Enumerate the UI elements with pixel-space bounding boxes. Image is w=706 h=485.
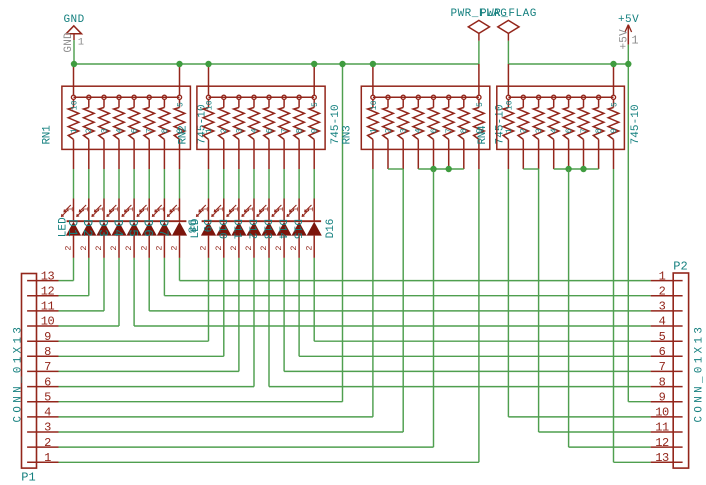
wires RN2 pins to LED cathode pins [208, 199, 210, 222]
wire GND drop to P1 pin 5 row [342, 64, 344, 402]
svg-text:P2: P2 [673, 259, 687, 273]
svg-text:2: 2 [170, 245, 180, 250]
svg-text:RN2: RN2 [178, 126, 190, 145]
power symbol +5V #PWR04 [618, 14, 639, 50]
resistor network RN2 745-10 [197, 64, 325, 169]
svg-text:5: 5 [611, 102, 620, 107]
svg-text:2: 2 [44, 436, 51, 450]
LED D3 [92, 205, 112, 258]
wire P1 pin 5 row [59, 401, 343, 403]
wire to P2 pin 12 row [569, 446, 651, 448]
wire P1 pin 12 row [59, 295, 89, 297]
wire to P2 pin 6 row [299, 355, 651, 357]
svg-text:2: 2 [124, 245, 134, 250]
svg-text:7: 7 [579, 128, 589, 133]
svg-text:2: 2 [64, 245, 74, 250]
svg-text:2: 2 [383, 128, 393, 133]
svg-text:7: 7 [44, 360, 51, 374]
wire P1 pin 1 row [59, 461, 479, 463]
wire to P2 pin 3 row [149, 310, 651, 312]
svg-text:6: 6 [429, 128, 439, 133]
LED D13 [257, 205, 277, 258]
svg-text:D7: D7 [156, 219, 170, 239]
svg-text:1: 1 [631, 33, 638, 47]
LED D6 [137, 205, 157, 258]
svg-text:2: 2 [214, 245, 224, 250]
svg-text:9: 9 [44, 330, 51, 344]
svg-text:4: 4 [549, 128, 559, 133]
wire tie RN4 pins 2-3 [523, 168, 538, 170]
svg-text:+5V: +5V [618, 14, 639, 26]
svg-text:1: 1 [276, 207, 286, 212]
wire P1 pin 10 row [59, 325, 120, 327]
svg-text:1: 1 [204, 128, 214, 133]
svg-text:4: 4 [414, 128, 424, 133]
junction RN2 pin5 [311, 61, 317, 67]
svg-text:8: 8 [594, 128, 604, 133]
svg-text:D4: D4 [110, 219, 124, 239]
svg-text:3: 3 [44, 421, 51, 435]
svg-text:10: 10 [655, 406, 669, 420]
wire P1 pin 4 row [59, 416, 373, 418]
junction RN2 pin10 [205, 61, 211, 67]
connector P1 CONN_01X13 [22, 269, 59, 468]
svg-text:745-10: 745-10 [330, 104, 342, 144]
svg-text:2: 2 [259, 245, 269, 250]
wire GND bus [74, 63, 479, 65]
resistor network RN4 745-10 [497, 64, 625, 169]
wire RN4 pin6 drop to P2 pin12 row [568, 169, 570, 447]
wire PWR_FLAG to GND bus [478, 41, 480, 64]
svg-text:1: 1 [306, 207, 316, 212]
svg-text:10: 10 [206, 100, 215, 110]
svg-text:D16: D16 [325, 219, 337, 239]
svg-text:2: 2 [219, 128, 229, 133]
wire P1 pin 8 row [59, 355, 224, 357]
junction RN3 pin 7 [446, 166, 452, 172]
svg-text:1: 1 [659, 269, 666, 283]
wire RN3 pin6 drop to P1 pin2 row [433, 169, 435, 447]
LED D16 [302, 205, 322, 258]
svg-text:D5: D5 [126, 219, 140, 239]
svg-text:6: 6 [130, 128, 140, 133]
svg-text:5: 5 [659, 330, 666, 344]
svg-text:PWR_FLAG: PWR_FLAG [480, 8, 537, 20]
wire P1 pin 7 row [59, 370, 239, 372]
svg-text:1: 1 [246, 207, 256, 212]
svg-text:7: 7 [444, 128, 454, 133]
wire to P2 pin 7 row [284, 370, 651, 372]
LED cathode bars group 1 [67, 220, 187, 222]
svg-text:10: 10 [41, 315, 55, 329]
svg-text:2: 2 [229, 245, 239, 250]
wire P1 pin 9 row [59, 340, 209, 342]
LED D15 [287, 205, 307, 258]
svg-text:1: 1 [368, 128, 378, 133]
svg-text:D1: D1 [65, 219, 79, 239]
LED D14 [272, 205, 292, 258]
svg-text:10: 10 [370, 100, 379, 110]
svg-text:3: 3 [659, 300, 666, 314]
wire to P2 pin 13 row [614, 461, 651, 463]
svg-text:7: 7 [659, 360, 666, 374]
svg-text:12: 12 [41, 284, 55, 298]
junction GND symbol / RN1 pin10 [71, 61, 77, 67]
svg-text:1: 1 [66, 207, 76, 212]
svg-text:D11: D11 [231, 219, 243, 240]
svg-text:2: 2 [659, 284, 666, 298]
svg-text:8: 8 [160, 128, 170, 133]
svg-text:1: 1 [291, 207, 301, 212]
wire RN4 pin3 drop to P2 pin11 row [538, 169, 540, 432]
resistor network RN3 745-10 [361, 64, 490, 169]
wires LED anodes group 1 vertical [73, 258, 75, 281]
svg-text:D6: D6 [141, 219, 155, 239]
svg-text:7: 7 [145, 128, 155, 133]
svg-text:D15: D15 [291, 219, 303, 239]
svg-text:2: 2 [244, 245, 254, 250]
svg-text:D14: D14 [276, 219, 288, 240]
svg-text:1: 1 [111, 207, 121, 212]
LED cathode bars group 2 [202, 220, 322, 222]
svg-text:2: 2 [94, 245, 104, 250]
junction GND drop [339, 61, 345, 67]
svg-text:RN3: RN3 [342, 126, 354, 145]
svg-text:3: 3 [99, 128, 109, 133]
wire +5V symbol to bus [627, 45, 629, 64]
wire RN4 pin9 drop to P2 pin13 row [613, 169, 615, 462]
svg-text:10: 10 [71, 100, 80, 110]
svg-text:1: 1 [504, 128, 514, 133]
svg-text:2: 2 [199, 245, 209, 250]
svg-text:D13: D13 [261, 219, 273, 239]
svg-text:1: 1 [81, 207, 91, 212]
svg-text:5: 5 [44, 390, 51, 404]
svg-text:6: 6 [564, 128, 574, 133]
svg-text:9: 9 [310, 128, 320, 133]
junction RN4 pin5 [610, 61, 616, 67]
svg-text:9: 9 [609, 128, 619, 133]
svg-text:8: 8 [44, 345, 51, 359]
svg-text:5: 5 [177, 102, 186, 107]
LED D1 [62, 205, 82, 258]
svg-text:4: 4 [659, 315, 666, 329]
svg-text:D2: D2 [80, 219, 94, 239]
LED D12 [242, 205, 262, 258]
junction RN1 pin5 [176, 61, 182, 67]
wire tie RN3 pins 4-7 [418, 168, 464, 170]
LED D2 [77, 205, 97, 258]
wire to P2 pin 1 row [180, 280, 651, 282]
wire PWR_FLAG to +5V bus [507, 41, 509, 64]
svg-text:1: 1 [261, 207, 271, 212]
wire to P2 pin 11 row [539, 431, 651, 433]
svg-text:RN4: RN4 [477, 125, 489, 145]
svg-text:4: 4 [114, 128, 124, 133]
svg-text:8: 8 [459, 128, 469, 133]
junction RN4 pin 6 [565, 166, 571, 172]
svg-text:5: 5 [311, 102, 320, 107]
svg-text:13: 13 [41, 269, 55, 283]
svg-text:1: 1 [141, 207, 151, 212]
svg-text:RN1: RN1 [42, 125, 54, 145]
svg-text:3: 3 [399, 128, 409, 133]
svg-text:12: 12 [655, 436, 669, 450]
svg-text:8: 8 [295, 128, 305, 133]
wire RN4 pin1 drop to P2 pin10 row [507, 169, 509, 417]
wire to P2 pin 5 row [314, 340, 651, 342]
svg-text:4: 4 [44, 406, 51, 420]
power flag PWR_FLAG #FLG01 (GND net) [450, 8, 507, 41]
svg-text:10: 10 [505, 100, 514, 110]
svg-text:1: 1 [201, 207, 211, 212]
svg-text:CONN_01X13: CONN_01X13 [694, 324, 706, 423]
svg-text:2: 2 [109, 245, 119, 250]
power flag PWR_FLAG #FLG02 (+5V net) [480, 8, 537, 41]
svg-text:11: 11 [41, 300, 55, 314]
LED D10 [212, 205, 232, 258]
svg-text:2: 2 [84, 128, 94, 133]
wire to P2 pin 4 row [134, 325, 651, 327]
wire tie RN3 pins 2-3 [388, 168, 403, 170]
svg-text:745-10: 745-10 [630, 104, 642, 144]
LED D5 [122, 205, 142, 258]
svg-text:2: 2 [289, 245, 299, 250]
LED D11 [227, 205, 247, 258]
svg-text:1: 1 [44, 451, 51, 465]
wire to P2 pin 2 row [164, 295, 650, 297]
svg-text:1: 1 [126, 207, 136, 212]
wire to P2 pin 9 row [628, 401, 650, 403]
wire to P2 pin 8 row [269, 386, 651, 388]
power symbol GND #PWR01 [63, 14, 85, 53]
svg-text:6: 6 [264, 128, 274, 133]
LED D9 [197, 205, 217, 258]
svg-text:8: 8 [659, 375, 666, 389]
junction RN4 pin 7 [580, 166, 586, 172]
wire tie RN4 pins 4-7 [554, 168, 599, 170]
svg-text:D10: D10 [215, 219, 227, 239]
wire P1 pin 6 row [59, 386, 255, 388]
wire GND symbol to bus [73, 40, 75, 64]
svg-text:1: 1 [172, 207, 182, 212]
svg-text:11: 11 [655, 421, 669, 435]
wires RN1 pins to LED cathode pins [73, 199, 75, 222]
svg-text:CONN_01X13: CONN_01X13 [12, 324, 24, 423]
wire P1 pin 11 row [59, 310, 105, 312]
svg-text:5: 5 [476, 102, 485, 107]
wires RN2 outputs to LED cathodes D9-D16 [208, 169, 210, 199]
svg-text:D9: D9 [200, 219, 212, 233]
svg-text:6: 6 [44, 375, 51, 389]
svg-text:3: 3 [534, 128, 544, 133]
svg-text:2: 2 [519, 128, 529, 133]
svg-text:LED: LED [190, 218, 202, 238]
junction RN3 pin 6 [430, 166, 436, 172]
junction +5V drop [625, 61, 631, 67]
connector P2 CONN_01X13 [651, 269, 689, 468]
LED D4 [107, 205, 127, 258]
LED D8 [168, 205, 188, 258]
svg-text:3: 3 [234, 128, 244, 133]
svg-text:P1: P1 [21, 470, 35, 484]
svg-text:GND: GND [63, 32, 75, 53]
svg-text:1: 1 [216, 207, 226, 212]
svg-text:1: 1 [78, 37, 84, 49]
wire RN3 pin9 drop to P1 pin1 row [478, 169, 480, 462]
junction RN3 pin10 [370, 61, 376, 67]
svg-text:6: 6 [659, 345, 666, 359]
wire RN3 pin3 drop to P1 pin3 row [402, 169, 404, 432]
wire +5V drop to P2 pin 9 row [627, 64, 629, 402]
wire P1 pin 13 row [59, 280, 74, 282]
svg-text:2: 2 [304, 245, 314, 250]
svg-text:9: 9 [659, 390, 666, 404]
svg-text:2: 2 [79, 245, 89, 250]
wire P1 pin 2 row [59, 446, 434, 448]
wires LED anodes group 2 vertical [208, 258, 210, 341]
wire RN3 pin1 drop to P1 pin4 row [372, 169, 374, 417]
svg-text:1: 1 [231, 207, 241, 212]
svg-text:1: 1 [96, 207, 106, 212]
LED D7 [152, 205, 172, 258]
svg-text:D12: D12 [246, 219, 258, 239]
svg-text:2: 2 [274, 245, 284, 250]
svg-text:4: 4 [249, 128, 259, 133]
svg-text:2: 2 [139, 245, 149, 250]
wire +5V bus [508, 63, 628, 65]
svg-text:1: 1 [69, 128, 79, 133]
wires RN1 outputs to LED cathodes D1-D8 [73, 169, 75, 199]
svg-text:13: 13 [655, 451, 669, 465]
wire P1 pin 3 row [59, 431, 404, 433]
svg-text:1: 1 [156, 207, 166, 212]
svg-text:D3: D3 [95, 219, 109, 239]
svg-text:7: 7 [280, 128, 290, 133]
svg-text:GND: GND [63, 14, 84, 26]
resistor network RN1 745-10 [62, 64, 191, 169]
wire to P2 pin 10 row [508, 416, 650, 418]
svg-text:2: 2 [155, 245, 165, 250]
